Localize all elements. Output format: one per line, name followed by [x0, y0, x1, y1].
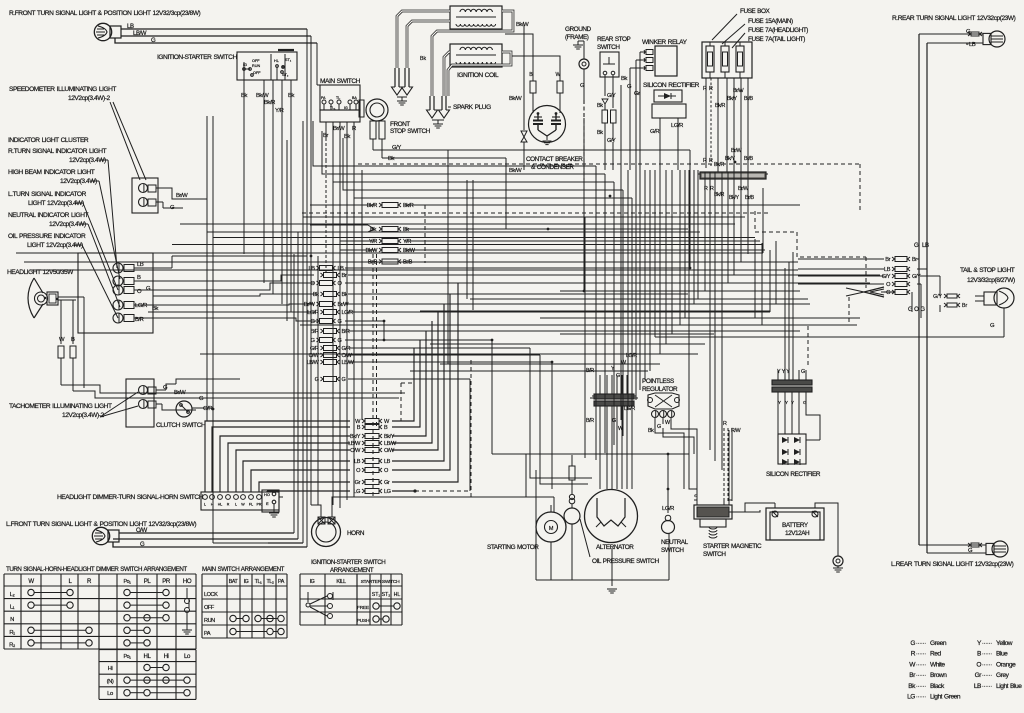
- svg-text:Y Y Y: Y Y Y: [777, 369, 790, 375]
- svg-text:W: W: [59, 337, 65, 343]
- svg-text:TL: TL: [336, 96, 340, 100]
- svg-text:G: G: [657, 424, 661, 430]
- svg-text:STARTER SWITCH: STARTER SWITCH: [361, 579, 401, 585]
- svg-text:LOCK: LOCK: [204, 592, 218, 598]
- svg-text:HL: HL: [218, 503, 223, 507]
- svg-text:STARTING MOTOR: STARTING MOTOR: [487, 544, 539, 551]
- svg-text:Br: Br: [912, 257, 917, 263]
- svg-text:TL₁: TL₁: [255, 579, 262, 585]
- svg-text:HEADLIGHT DIMMER-TURN SIGNAL-H: HEADLIGHT DIMMER-TURN SIGNAL-HORN SWITCH: [57, 494, 204, 501]
- svg-text:NEUTRAL INDICATOR LIGHT: NEUTRAL INDICATOR LIGHT: [8, 212, 89, 219]
- svg-text:ARRANGEMENT: ARRANGEMENT: [330, 567, 374, 574]
- svg-text:STOP SWITCH: STOP SWITCH: [390, 128, 431, 135]
- svg-text:LG/R: LG/R: [671, 123, 683, 129]
- svg-text:LB/W: LB/W: [133, 30, 147, 37]
- svg-text:R₂: R₂: [9, 642, 15, 648]
- svg-text:BA: BA: [352, 96, 357, 100]
- svg-text:B/R: B/R: [342, 329, 350, 335]
- svg-text:Bk/Y: Bk/Y: [725, 156, 735, 162]
- svg-text:Br/B: Br/B: [745, 195, 755, 201]
- svg-text:R: R: [703, 158, 707, 164]
- svg-text:ALTERNATOR: ALTERNATOR: [596, 544, 634, 551]
- svg-text:Bk: Bk: [908, 683, 916, 690]
- svg-text:PL: PL: [144, 578, 152, 585]
- svg-text:BATTERY: BATTERY: [782, 522, 809, 529]
- svg-text:Bk/W: Bk/W: [256, 93, 269, 99]
- svg-text:O: O: [976, 661, 981, 668]
- svg-text:Br/W: Br/W: [733, 88, 745, 94]
- svg-text:(N): (N): [107, 679, 114, 685]
- svg-text:FUSE 7A(TAIL LIGHT): FUSE 7A(TAIL LIGHT): [748, 36, 805, 43]
- svg-text:LG/R: LG/R: [307, 310, 319, 316]
- svg-text:HO: HO: [264, 492, 270, 497]
- svg-text:IG: IG: [244, 579, 249, 585]
- svg-text:SPEEDOMETER ILLUMINATING LIGHT: SPEEDOMETER ILLUMINATING LIGHT: [9, 86, 116, 93]
- svg-text:OFF: OFF: [252, 59, 260, 63]
- svg-text:INDICATOR LIGHT CLUSTER: INDICATOR LIGHT CLUSTER: [8, 137, 89, 144]
- svg-text:G: G: [910, 640, 915, 647]
- svg-text:Brown: Brown: [930, 672, 947, 679]
- svg-text:L₂: L₂: [10, 592, 15, 598]
- svg-text:PA: PA: [321, 96, 326, 100]
- svg-text:······: ······: [916, 673, 926, 679]
- svg-text:FUSE BOX: FUSE BOX: [740, 8, 771, 15]
- svg-text:STARTER MAGNETIC: STARTER MAGNETIC: [703, 543, 762, 550]
- svg-text:SILICON RECTIFIER: SILICON RECTIFIER: [766, 471, 821, 478]
- svg-text:LB: LB: [127, 23, 134, 30]
- svg-text:······: ······: [916, 652, 926, 658]
- svg-text:ST₂: ST₂: [382, 592, 391, 598]
- svg-text:G/R: G/R: [650, 129, 659, 135]
- svg-text:FREE: FREE: [357, 605, 369, 611]
- svg-text:HO: HO: [183, 578, 192, 585]
- svg-text:12V12AH: 12V12AH: [785, 530, 810, 537]
- svg-text:B/R: B/R: [135, 317, 144, 323]
- svg-text:MAIN SWITCH: MAIN SWITCH: [320, 78, 361, 85]
- svg-text:Red: Red: [930, 651, 942, 658]
- svg-text:SILICON RECTIFIER: SILICON RECTIFIER: [643, 82, 700, 89]
- svg-text:N: N: [10, 617, 14, 623]
- svg-text:Bk/W: Bk/W: [509, 168, 522, 174]
- svg-text:R: R: [723, 421, 727, 427]
- svg-text:POINTLESS: POINTLESS: [642, 378, 674, 385]
- svg-text:TL₁: TL₁: [330, 106, 336, 110]
- svg-text:Br/W: Br/W: [176, 193, 188, 199]
- svg-text:Hi: Hi: [108, 666, 113, 672]
- svg-text:Bk/R: Bk/R: [714, 162, 724, 168]
- svg-text:IGNITION-STARTER SWITCH: IGNITION-STARTER SWITCH: [311, 559, 385, 566]
- svg-text:R₁: R₁: [9, 630, 15, 636]
- svg-text:LG: LG: [907, 694, 915, 701]
- svg-text:Bk: Bk: [388, 156, 394, 162]
- svg-text:Br/W: Br/W: [333, 126, 345, 132]
- svg-text:G/Y: G/Y: [912, 274, 921, 280]
- svg-text:Bk/Y: Bk/Y: [727, 96, 737, 102]
- svg-text:L: L: [204, 503, 206, 507]
- svg-text:L.REAR TURN SIGNAL LIGHT 12V32: L.REAR TURN SIGNAL LIGHT 12V32cp(23W): [891, 561, 1014, 568]
- svg-text:SWITCH: SWITCH: [661, 547, 684, 554]
- svg-text:G/Y: G/Y: [882, 274, 891, 280]
- svg-text:LB: LB: [969, 42, 976, 48]
- svg-text:TAIL & STOP LIGHT: TAIL & STOP LIGHT: [960, 267, 1015, 274]
- svg-text:Gr: Gr: [634, 91, 640, 97]
- svg-text:HORN: HORN: [347, 530, 365, 537]
- svg-text:Br/W: Br/W: [304, 302, 316, 308]
- svg-text:PA: PA: [278, 579, 285, 585]
- svg-text:REAR STOP: REAR STOP: [597, 36, 631, 43]
- svg-text:HIGH BEAM INDICATOR LIGHT: HIGH BEAM INDICATOR LIGHT: [8, 169, 95, 176]
- svg-text:MAIN SWITCH ARRANGEMENT: MAIN SWITCH ARRANGEMENT: [202, 566, 285, 573]
- svg-text:IGNITION COIL: IGNITION COIL: [457, 72, 499, 79]
- svg-text:LB: LB: [354, 459, 361, 465]
- svg-text:LB/W: LB/W: [342, 360, 355, 366]
- svg-text:LB: LB: [137, 262, 144, 268]
- svg-text:FUSE 15A(MAIN): FUSE 15A(MAIN): [748, 18, 793, 25]
- svg-text:R: R: [709, 158, 713, 164]
- svg-text:Bk: Bk: [648, 428, 654, 434]
- svg-text:Light Blue: Light Blue: [996, 683, 1022, 690]
- svg-text:Br/W: Br/W: [731, 148, 743, 154]
- svg-text:G: G: [342, 377, 346, 383]
- svg-text:OIL PRESSURE SWITCH: OIL PRESSURE SWITCH: [592, 558, 659, 565]
- svg-text:HL: HL: [274, 59, 279, 63]
- svg-text:E: E: [266, 501, 269, 506]
- svg-text:12V2cp(3.4W)-2: 12V2cp(3.4W)-2: [68, 95, 110, 102]
- svg-text:CLUTCH SWITCH: CLUTCH SWITCH: [156, 422, 206, 429]
- svg-text:SPARK PLUG: SPARK PLUG: [453, 104, 491, 111]
- svg-text:HL: HL: [144, 653, 152, 660]
- svg-text:REGULATOR: REGULATOR: [642, 386, 678, 393]
- svg-text:Bk/R: Bk/R: [403, 203, 414, 209]
- svg-text:R: R: [911, 651, 916, 658]
- svg-text:Bk/Y: Bk/Y: [384, 434, 395, 440]
- svg-text:Bk: Bk: [597, 130, 603, 136]
- svg-text:RUN: RUN: [204, 618, 215, 624]
- svg-text:LG/R: LG/R: [624, 406, 635, 412]
- svg-text:B: B: [71, 337, 75, 343]
- svg-text:Pᴏ₁: Pᴏ₁: [123, 579, 131, 585]
- svg-text:SWITCH: SWITCH: [597, 44, 620, 51]
- svg-text:R: R: [703, 86, 707, 92]
- svg-text:TACHOMETER ILLUMINATING LIGHT: TACHOMETER ILLUMINATING LIGHT: [9, 403, 112, 410]
- svg-text:O/W: O/W: [350, 448, 361, 454]
- svg-text:NEUTRAL: NEUTRAL: [661, 539, 689, 546]
- svg-text:(FRAME): (FRAME): [565, 34, 589, 41]
- svg-text:Blue: Blue: [996, 651, 1008, 658]
- svg-text:GROUND: GROUND: [565, 26, 592, 33]
- svg-text:LG: LG: [384, 489, 391, 495]
- svg-text:LB/W: LB/W: [348, 441, 361, 447]
- svg-text:R.REAR TURN SIGNAL LIGHT 12V32: R.REAR TURN SIGNAL LIGHT 12V32cp(23W): [892, 15, 1016, 22]
- svg-text:SWITCH: SWITCH: [703, 551, 726, 558]
- svg-text:Gr: Gr: [384, 480, 390, 486]
- svg-text:G O G: G O G: [908, 306, 925, 313]
- svg-text:G: G: [801, 369, 805, 375]
- svg-text:······: ······: [916, 662, 926, 668]
- svg-text:ST₁: ST₁: [285, 58, 292, 62]
- svg-text:IG: IG: [344, 106, 348, 110]
- svg-text:Gr: Gr: [355, 480, 361, 486]
- svg-text:G/Y: G/Y: [607, 93, 616, 99]
- svg-text:G/Y: G/Y: [392, 145, 401, 151]
- svg-text:Yellow: Yellow: [996, 640, 1013, 647]
- svg-text:Y: Y: [785, 400, 788, 405]
- svg-text:LB: LB: [384, 459, 391, 465]
- svg-text:LB: LB: [974, 683, 982, 690]
- svg-text:FL: FL: [249, 503, 253, 507]
- svg-text:W: W: [28, 578, 34, 585]
- svg-text:R.TURN SIGNAL INDICATOR LIGHT: R.TURN SIGNAL INDICATOR LIGHT: [8, 148, 107, 155]
- svg-text:R.FRONT TURN SIGNAL LIGHT & PO: R.FRONT TURN SIGNAL LIGHT & POSITION LIG…: [9, 10, 201, 17]
- svg-text:Bk/R: Bk/R: [715, 103, 725, 109]
- svg-text:Bk/W: Bk/W: [509, 96, 522, 102]
- svg-text:G: G: [886, 290, 890, 296]
- svg-text:TL₂: TL₂: [266, 579, 273, 585]
- svg-text:BAT: BAT: [229, 579, 239, 585]
- svg-text:ST₁: ST₁: [372, 592, 381, 598]
- svg-text:Bk: Bk: [597, 103, 603, 109]
- svg-text:Pᴏ₁: Pᴏ₁: [123, 654, 131, 660]
- svg-text:Br/B: Br/B: [744, 96, 754, 102]
- svg-text:······: ······: [982, 641, 992, 647]
- svg-text:······: ······: [982, 684, 992, 690]
- svg-text:OFF: OFF: [204, 605, 215, 611]
- svg-text:PUSH: PUSH: [357, 618, 370, 624]
- svg-text:Bk/R: Bk/R: [367, 203, 378, 209]
- svg-text:······: ······: [916, 695, 926, 701]
- svg-text:G: G: [151, 37, 156, 44]
- svg-text:Br/B: Br/B: [744, 156, 754, 162]
- svg-text:Black: Black: [930, 683, 945, 690]
- svg-text:Grey: Grey: [996, 672, 1010, 679]
- svg-text:Br/W: Br/W: [338, 302, 350, 308]
- svg-text:IG: IG: [310, 579, 315, 585]
- svg-text:Br: Br: [885, 257, 890, 263]
- svg-text:KILL: KILL: [336, 579, 346, 585]
- svg-text:Bk: Bk: [152, 306, 158, 312]
- svg-text:B/R: B/R: [586, 418, 594, 424]
- svg-text:······: ······: [982, 662, 992, 668]
- svg-text:HL: HL: [394, 592, 401, 598]
- svg-text:LB: LB: [309, 266, 316, 272]
- svg-text:Bk/Y: Bk/Y: [350, 434, 361, 440]
- svg-text:G/R: G/R: [203, 406, 212, 412]
- svg-text:R: R: [227, 503, 230, 507]
- svg-text:G/Y: G/Y: [933, 294, 942, 300]
- svg-text:······: ······: [982, 673, 992, 679]
- svg-text:L: L: [235, 503, 237, 507]
- svg-text:G/Y: G/Y: [607, 138, 616, 144]
- svg-text:O/W: O/W: [136, 527, 148, 534]
- svg-text:R: R: [709, 86, 713, 92]
- svg-text:Bk/W: Bk/W: [516, 22, 529, 28]
- svg-text:Lo: Lo: [184, 653, 191, 660]
- svg-text:PR: PR: [257, 503, 262, 507]
- svg-text:LB: LB: [338, 266, 345, 272]
- svg-text:Y: Y: [778, 400, 781, 405]
- svg-text:······: ······: [982, 652, 992, 658]
- svg-text:White: White: [930, 661, 945, 668]
- svg-text:LB: LB: [922, 242, 929, 249]
- svg-text:CONTACT BREAKER: CONTACT BREAKER: [526, 156, 583, 163]
- svg-text:O/W: O/W: [384, 448, 395, 454]
- svg-text:FUSE 7A(HEADLIGHT): FUSE 7A(HEADLIGHT): [748, 27, 808, 34]
- svg-text:12V2cp(3.4W)-2: 12V2cp(3.4W)-2: [62, 412, 104, 419]
- svg-text:······: ······: [916, 641, 926, 647]
- svg-text:Green: Green: [930, 640, 947, 647]
- svg-text:OFF: OFF: [253, 71, 261, 75]
- svg-text:Br/W: Br/W: [174, 390, 186, 396]
- svg-text:& CONDENSER: & CONDENSER: [531, 164, 574, 171]
- svg-text:Br: Br: [962, 303, 967, 309]
- svg-text:Light Green: Light Green: [930, 694, 961, 701]
- svg-text:WINKER RELAY: WINKER RELAY: [642, 39, 688, 46]
- svg-text:Bk/R: Bk/R: [714, 192, 724, 198]
- svg-text:L.TURN SIGNAL INDICATOR: L.TURN SIGNAL INDICATOR: [8, 191, 87, 198]
- svg-text:······: ······: [916, 684, 926, 690]
- svg-text:B: B: [137, 275, 141, 281]
- svg-text:LB: LB: [884, 267, 891, 273]
- svg-text:G/R: G/R: [342, 346, 351, 352]
- svg-text:Hi: Hi: [164, 653, 169, 660]
- svg-text:Orange: Orange: [996, 661, 1016, 668]
- svg-text:G: G: [914, 242, 919, 249]
- svg-text:W: W: [241, 503, 245, 507]
- svg-text:IGNITION-STARTER SWITCH: IGNITION-STARTER SWITCH: [157, 54, 237, 61]
- svg-text:LG/R: LG/R: [135, 303, 147, 309]
- svg-text:Bk: Bk: [420, 56, 426, 62]
- svg-text:12V3/32cp(8/27W): 12V3/32cp(8/27W): [967, 277, 1015, 284]
- svg-text:Br: Br: [342, 273, 347, 279]
- svg-text:Y: Y: [791, 400, 794, 405]
- svg-text:PR: PR: [162, 578, 171, 585]
- svg-text:RUN: RUN: [252, 64, 260, 68]
- svg-text:Bk: Bk: [621, 76, 627, 82]
- svg-text:R/W: R/W: [731, 428, 741, 434]
- svg-text:PA: PA: [204, 631, 211, 637]
- svg-text:TURN SIGNAL-HORN-HEADLIGHT DIM: TURN SIGNAL-HORN-HEADLIGHT DIMMER SWITCH…: [6, 566, 187, 573]
- svg-text:FRONT: FRONT: [390, 121, 410, 128]
- svg-text:LB/W: LB/W: [384, 441, 397, 447]
- svg-text:OIL PRESSURE INDICATOR: OIL PRESSURE INDICATOR: [8, 233, 86, 240]
- svg-text:L₁: L₁: [10, 605, 15, 611]
